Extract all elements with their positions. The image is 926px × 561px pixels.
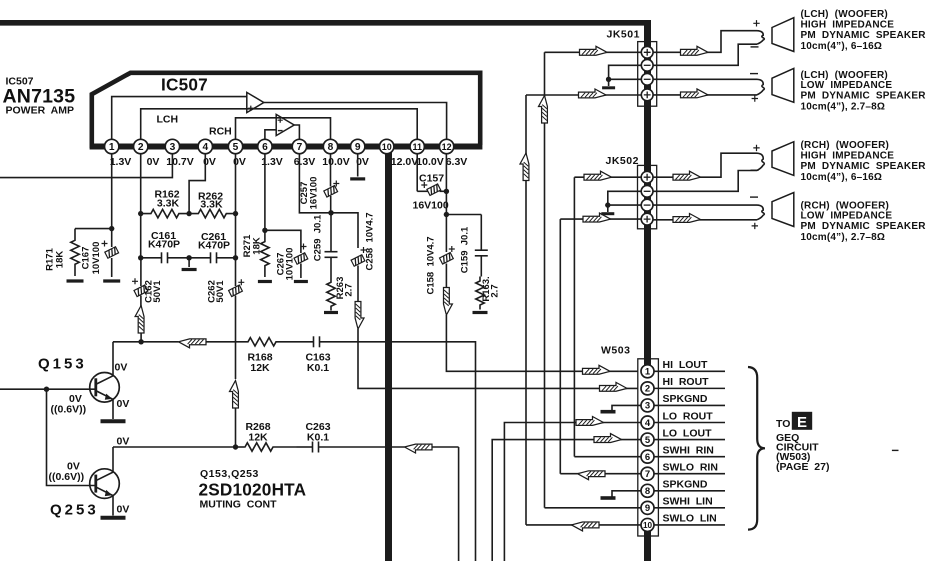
wire muting line LCH R168/C163 <box>113 341 141 343</box>
IC507 pin 11 <box>410 139 424 153</box>
svg-text:6: 6 <box>262 142 268 153</box>
IC507 pin 8 <box>323 139 337 153</box>
svg-text:SWHI LIN: SWHI LIN <box>663 496 713 508</box>
svg-text:3: 3 <box>170 142 176 153</box>
wire C258 to W503 pin2 HI ROUT <box>358 329 641 388</box>
JK502 pin + at 219.1 <box>641 213 653 225</box>
svg-text:((0.6V)): ((0.6V)) <box>51 403 87 415</box>
IC507 pin 3 <box>165 139 179 153</box>
svg-text:6.3V: 6.3V <box>294 156 316 168</box>
wire pin4 to R162-R262 node <box>189 154 205 214</box>
wire JK501 speaker1 loop <box>654 31 758 53</box>
inductor speaker1 voice coil <box>757 31 764 45</box>
svg-text:SPKGND: SPKGND <box>663 479 708 491</box>
svg-text:6: 6 <box>645 452 650 463</box>
wire JK501 pin1 feed <box>545 51 642 53</box>
W503 pin 1 HI LOUT <box>654 370 725 372</box>
capacitor C262 50V1 electrolytic <box>235 258 237 286</box>
wire to Q153 base <box>47 388 96 390</box>
svg-text:(PAGE 27): (PAGE 27) <box>776 461 829 473</box>
svg-text:POWER AMP: POWER AMP <box>6 104 74 116</box>
wire left vertical bus <box>385 147 392 561</box>
node R162/R262/pin4 <box>186 211 191 216</box>
inductor speaker2 voice coil <box>757 79 764 95</box>
wire Q253 emitter to ground <box>112 496 114 516</box>
resistor R262 3.3K <box>189 209 235 217</box>
svg-text:RCH: RCH <box>209 126 232 138</box>
svg-text:3.3K: 3.3K <box>200 199 223 211</box>
ground C161/C261 node <box>188 258 190 267</box>
svg-text:SWLO LIN: SWLO LIN <box>663 513 717 525</box>
node JK501 ground <box>606 77 611 82</box>
svg-text:PM DYNAMIC SPEAKER: PM DYNAMIC SPEAKER <box>801 221 926 232</box>
wire pin1 down to R171/C167 node <box>111 154 113 229</box>
capacitor C157 16V100 electrolytic <box>417 190 428 192</box>
connector JK501 box <box>638 42 657 107</box>
arrow up on C162 branch <box>135 306 144 334</box>
arrow right speaker1 <box>681 46 709 55</box>
wire C263 across bus <box>377 446 405 448</box>
IC507 pin row bar <box>90 144 483 150</box>
stray mark <box>892 449 899 451</box>
svg-text:Q253: Q253 <box>50 502 99 519</box>
wire Q153 emitter to ground <box>112 399 114 419</box>
svg-text:1: 1 <box>645 367 651 378</box>
svg-text:LO LOUT: LO LOUT <box>663 427 713 439</box>
wire LCH op-amp output to pin 12 <box>264 103 447 140</box>
resistor R163 2.7 <box>476 277 484 310</box>
svg-text:12K: 12K <box>250 362 270 374</box>
speaker RCH high impedance <box>772 142 794 176</box>
svg-text:10cm(4”), 2.7–8Ω: 10cm(4”), 2.7–8Ω <box>801 102 886 113</box>
speaker RCH low impedance <box>772 193 794 227</box>
svg-text:1.3V: 1.3V <box>110 156 132 168</box>
capacitor C258 10V4.7 electrolytic <box>351 255 365 267</box>
svg-text:5: 5 <box>645 435 651 446</box>
wire Q253 collector up to muting line <box>112 447 114 472</box>
svg-text:PM DYNAMIC SPEAKER: PM DYNAMIC SPEAKER <box>801 91 926 102</box>
svg-text:K0.1: K0.1 <box>307 431 329 443</box>
capacitor C263 K0.1 <box>297 446 313 448</box>
svg-text:PM DYNAMIC SPEAKER: PM DYNAMIC SPEAKER <box>801 30 926 41</box>
svg-text:10: 10 <box>643 521 653 530</box>
wire Q153 collector up <box>112 342 114 376</box>
wire pin2 node down to C161 <box>140 214 142 258</box>
ground Q253 emitter <box>101 516 126 520</box>
svg-text:12: 12 <box>442 142 452 152</box>
svg-text:2: 2 <box>138 142 144 153</box>
capacitor C261 K470P <box>189 257 210 259</box>
wire C163 to pin12 node riser <box>343 342 476 561</box>
arrow down on C158 branch <box>444 288 453 316</box>
svg-text:8: 8 <box>645 486 650 497</box>
node C262 to muting line 2 <box>233 444 238 449</box>
svg-text:12K: 12K <box>248 431 268 443</box>
node JK502 ground <box>605 202 610 207</box>
wire node to R171 <box>75 228 112 230</box>
svg-text:E: E <box>797 414 807 431</box>
arrow up on C262 branch <box>230 381 239 409</box>
svg-text:10V100: 10V100 <box>91 242 102 275</box>
wire muting RCH down off page <box>458 447 460 561</box>
svg-text:10: 10 <box>382 142 392 152</box>
svg-text:0V: 0V <box>117 504 130 516</box>
wire pin2 to LCH non-inverting input through to pin 11 <box>141 109 418 140</box>
arrow right to W503 pin2 <box>600 382 628 391</box>
capacitor C259 J0.1 <box>330 213 332 252</box>
svg-text:C157: C157 <box>419 173 444 185</box>
op-amp U507a LCH <box>247 92 264 112</box>
wire pin6 to RCH non-inverting input <box>265 130 276 140</box>
wire right vertical bus lower segment <box>644 531 651 561</box>
inductor speaker3 voice coil <box>757 153 764 170</box>
node R262/pin5 <box>233 211 238 216</box>
svg-text:W503: W503 <box>601 345 630 357</box>
wire node to C159 branch <box>446 214 481 216</box>
JK501 pin + at 94.9 <box>641 89 653 101</box>
wire RCH op-amp output to pin 7 <box>294 125 299 139</box>
IC507 pin 2 <box>134 139 148 153</box>
node C157/pin12 <box>444 189 449 194</box>
svg-text:9: 9 <box>645 503 650 514</box>
arrow left on W503 pin7 <box>578 471 606 480</box>
svg-text:8: 8 <box>328 142 334 153</box>
wire C158 to W503 pin1 HI LOUT <box>446 315 641 371</box>
svg-text:0V: 0V <box>117 436 130 448</box>
wire W503 pin6 from JK502 <box>574 456 641 458</box>
svg-text:HI ROUT: HI ROUT <box>663 376 710 388</box>
capacitor C159 J0.1 <box>480 215 482 251</box>
wire W503 pin10 from JK501 <box>526 524 641 526</box>
W503 pin 6 SWHI RIN <box>654 456 725 458</box>
wire right vertical bus <box>644 20 651 366</box>
wire pin6 down <box>264 154 266 231</box>
svg-text:11: 11 <box>412 142 422 152</box>
wire JK502 pin1 feed <box>574 176 641 178</box>
svg-text:K0.1: K0.1 <box>307 362 329 374</box>
ground JK502 <box>607 205 609 212</box>
svg-text:3: 3 <box>645 401 650 412</box>
node pin2/R162 <box>138 211 143 216</box>
svg-text:50V1: 50V1 <box>215 280 226 303</box>
wire pin5 to pin8 over RCH op-amp <box>236 118 331 140</box>
op-amp U507b RCH <box>276 114 294 135</box>
arrow right to W503 pin5 <box>594 434 622 443</box>
IC507 pin 10 <box>380 139 394 153</box>
node C261/pin5 <box>233 255 238 260</box>
svg-text:0V: 0V <box>115 362 128 374</box>
wire JK502 minus pins common <box>608 191 641 205</box>
wire pin9 to ground <box>357 154 359 177</box>
svg-text:50V1: 50V1 <box>152 280 163 303</box>
svg-text:2.7: 2.7 <box>490 284 501 297</box>
arrow right speaker4 <box>673 214 701 223</box>
svg-text:C159 J0.1: C159 J0.1 <box>460 226 471 273</box>
arrow right to W503 pin4 <box>576 417 604 426</box>
svg-text:SWLO RIN: SWLO RIN <box>663 462 718 474</box>
svg-text:SWHI RIN: SWHI RIN <box>663 444 714 456</box>
svg-text:C259 J0.1: C259 J0.1 <box>313 214 324 261</box>
JK502 pin - at 191.3 <box>641 185 653 197</box>
brace to GEQ circuit <box>748 367 765 530</box>
connector JK502 box <box>638 165 657 228</box>
resistor R271 18K <box>261 230 269 277</box>
svg-text:18K: 18K <box>55 251 66 269</box>
W503 pin 10 SWLO LIN <box>654 524 725 526</box>
svg-text:10.0V: 10.0V <box>416 156 443 168</box>
W503 pin 5 LO LOUT <box>654 439 725 441</box>
node C161 left <box>138 255 143 260</box>
wire pin5 down <box>235 154 237 258</box>
svg-text:10V100: 10V100 <box>285 248 296 281</box>
IC507 pin 5 <box>228 139 242 153</box>
resistor R162 3.3K <box>141 209 189 217</box>
wire pin2 down <box>140 154 142 214</box>
svg-text:16V100: 16V100 <box>309 177 320 210</box>
svg-text:12.0V: 12.0V <box>391 156 418 168</box>
wire JK502 pin1 riser down to W503 pin6 <box>573 177 575 456</box>
arrow down on C258 branch <box>355 302 364 330</box>
node pin8 branch <box>328 210 333 215</box>
svg-text:10cm(4”), 6–16Ω: 10cm(4”), 6–16Ω <box>801 172 883 183</box>
wire W503 pin3 ground <box>612 405 641 410</box>
svg-text:JK501: JK501 <box>607 29 640 41</box>
arrow right to JK502 pin1 <box>584 171 612 180</box>
svg-text:10cm(4”), 6–16Ω: 10cm(4”), 6–16Ω <box>801 41 883 52</box>
wire W503 pin9 from JK501 <box>545 507 642 509</box>
ground C167 <box>103 279 120 282</box>
wire to Q253 base <box>47 389 96 485</box>
W503 pin 4 LO ROUT <box>654 422 725 424</box>
svg-text:C158 10V4.7: C158 10V4.7 <box>426 236 437 294</box>
node C161/C261 mid <box>186 255 191 260</box>
ground JK501 <box>608 79 610 86</box>
capacitor C162 50V1 electrolytic <box>140 258 142 286</box>
svg-text:Q153: Q153 <box>38 356 87 373</box>
wire muting line RCH R268/C263 <box>113 446 236 448</box>
node pin1 bias <box>109 226 114 231</box>
svg-text:JK502: JK502 <box>606 155 639 167</box>
capacitor C163 K0.1 <box>297 341 314 343</box>
ground R163 <box>473 311 488 314</box>
svg-text:7: 7 <box>297 142 303 153</box>
IC507 pin 12 <box>439 139 453 153</box>
W503 bus stub bottom <box>644 531 651 537</box>
svg-text:6.3V: 6.3V <box>446 156 468 168</box>
capacitor C167 10V100 <box>111 229 113 247</box>
svg-text:16V100: 16V100 <box>413 200 449 212</box>
svg-text:TO: TO <box>776 418 790 430</box>
arrow left on W503 pin10 <box>572 522 600 531</box>
node base junction <box>44 387 49 392</box>
svg-text:K470P: K470P <box>198 239 230 251</box>
wire pin12 down <box>445 154 447 215</box>
arrow right speaker3 <box>673 171 701 180</box>
W503 pin 8 SPKGND <box>654 490 725 492</box>
labels pin voltages <box>110 156 468 168</box>
wire JK501 minus pins common <box>609 65 641 79</box>
IC507 pin 1 <box>105 139 119 153</box>
W503 bus stub top <box>644 359 651 366</box>
svg-text:((0.6V)): ((0.6V)) <box>49 471 85 483</box>
svg-text:IC507: IC507 <box>161 75 208 95</box>
IC507 pin 9 <box>351 139 365 153</box>
wire JK502 speaker4 top <box>654 204 758 206</box>
svg-text:0V: 0V <box>147 156 160 168</box>
wire base line from left edge <box>0 388 47 390</box>
svg-text:LO ROUT: LO ROUT <box>663 410 714 422</box>
arrow right to JK501 pin4 <box>579 89 607 98</box>
IC507 pin 7 <box>292 139 306 153</box>
wire W503 pin4 LO ROUT from below <box>504 423 641 561</box>
svg-text:MUTING CONT: MUTING CONT <box>200 498 278 510</box>
arrow right speaker2 <box>681 89 709 98</box>
arrow right to JK501 pin1 <box>580 46 608 55</box>
arrow left on muting line LCH <box>179 339 207 348</box>
connector W503 box <box>638 359 659 536</box>
node pin12 output <box>444 212 449 217</box>
wire JK501 pin4 riser down to W503 pin10 <box>525 95 527 525</box>
W503 pin 9 SWHI LIN <box>654 507 725 509</box>
ground C267 <box>294 280 308 283</box>
speaker LCH low impedance <box>772 68 794 102</box>
svg-text:10cm(4”), 2.7–8Ω: 10cm(4”), 2.7–8Ω <box>801 232 886 243</box>
capacitor C267 10V100 <box>265 230 301 253</box>
svg-text:2SD1020HTA: 2SD1020HTA <box>199 479 307 499</box>
inductor speaker4 voice coil <box>757 205 764 220</box>
svg-text:K470P: K470P <box>148 238 180 250</box>
wire JK502 pin4 riser down to W503 pin7 <box>559 219 561 474</box>
svg-text:C258 10V4.7: C258 10V4.7 <box>364 212 375 270</box>
svg-text:HI LOUT: HI LOUT <box>663 359 708 371</box>
svg-text:10.7V: 10.7V <box>166 156 193 168</box>
ground Q153 emitter <box>101 419 126 423</box>
JK501 pin - at 79.3 <box>641 73 653 85</box>
wire W503 pin7 from JK502 <box>560 473 641 475</box>
svg-text:7: 7 <box>645 469 650 480</box>
wire JK502 speaker3 loop <box>654 153 758 177</box>
svg-text:18K: 18K <box>252 237 263 255</box>
IC507 pin 6 <box>258 139 272 153</box>
W503 pin 3 SPKGND <box>654 404 725 406</box>
ground R271 <box>258 280 272 283</box>
wire pin7 to C257 node <box>299 154 331 213</box>
resistor R171 18K <box>71 229 79 276</box>
ground R263 <box>324 311 338 314</box>
symbol E page reference <box>792 412 812 430</box>
svg-text:SPKGND: SPKGND <box>663 393 708 405</box>
ground R171 <box>67 279 84 282</box>
svg-text:4: 4 <box>645 418 651 429</box>
capacitor C257 16V100 electrolytic <box>330 154 332 187</box>
svg-text:9: 9 <box>355 142 361 153</box>
wire top supply bus <box>0 20 651 26</box>
resistor R168 12K <box>206 338 297 346</box>
JK502 pin - at 205.1 <box>641 199 653 211</box>
wire W503 pin8 ground <box>612 491 641 497</box>
svg-text:Q153,Q253: Q153,Q253 <box>200 468 259 480</box>
wire JK501 speaker2 top <box>654 78 758 80</box>
W503 pin 7 SWLO RIN <box>654 473 725 475</box>
svg-text:0V: 0V <box>117 398 130 410</box>
svg-text:5: 5 <box>233 142 239 153</box>
svg-text:C167: C167 <box>81 247 92 270</box>
JK501 pin - at 65.3 <box>641 59 653 71</box>
speaker LCH high impedance <box>772 18 794 52</box>
node C162 to muting line <box>138 339 143 344</box>
wire pin1 to LCH op-amp inverting input <box>112 97 247 140</box>
svg-text:3.3K: 3.3K <box>157 198 180 210</box>
wire W503 pin5 LO LOUT from below <box>492 440 641 561</box>
svg-text:2.7: 2.7 <box>344 283 355 296</box>
wire JK502 pin4 feed <box>560 218 641 220</box>
node pin6 <box>262 228 267 233</box>
svg-text:LCH: LCH <box>157 114 179 126</box>
arrow up on SWHI LIN riser <box>539 96 548 124</box>
wire JK501 pin4 feed <box>526 94 641 96</box>
wire C258 branch from node <box>331 213 358 248</box>
arrow up on SWLO LIN riser <box>520 153 529 181</box>
svg-text:PM DYNAMIC SPEAKER: PM DYNAMIC SPEAKER <box>801 161 926 172</box>
capacitor C158 10V4.7 electrolytic <box>445 215 447 253</box>
svg-text:1: 1 <box>109 142 115 153</box>
wire JK501 pin1 riser down to W503 pin9 <box>544 52 546 508</box>
JK501 pin + at 52.3 <box>641 46 653 58</box>
capacitor C161 K470P <box>141 257 162 259</box>
svg-text:10.0V: 10.0V <box>322 156 349 168</box>
IC507 pin 4 <box>198 139 212 153</box>
JK502 pin + at 177.2 <box>641 171 653 183</box>
wire pin3 to left edge <box>0 154 172 178</box>
W503 pin 2 HI ROUT <box>654 387 725 389</box>
op-amp IC U507 outline <box>92 73 480 148</box>
arrow right to JK502 pin4 <box>583 213 611 222</box>
transistor Q253 <box>90 469 120 499</box>
ground pin9 <box>350 177 365 180</box>
transistor Q153 <box>90 373 120 403</box>
wire pin11 down to C157 <box>416 154 418 192</box>
svg-text:4: 4 <box>202 142 208 153</box>
resistor R268 12K <box>244 443 297 451</box>
svg-text:2: 2 <box>645 384 650 395</box>
arrow right to W503 pin1 <box>583 365 611 374</box>
arrow left on muting line RCH <box>405 444 433 453</box>
resistor R263 2.7 <box>327 278 335 311</box>
